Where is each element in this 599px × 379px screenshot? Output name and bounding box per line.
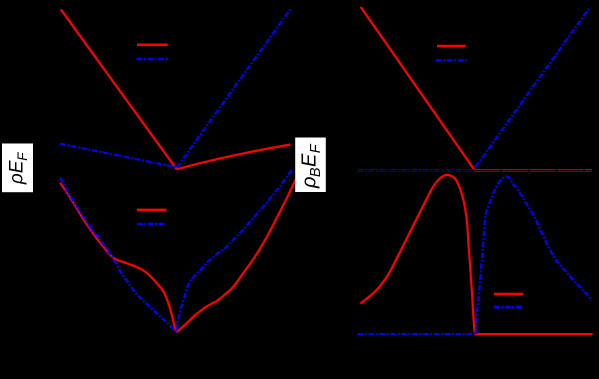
blue zero line bottom-right [358,333,475,335]
red curve bottom-left panel [60,179,296,332]
blue bell curve bottom-right panel [476,176,592,334]
svg-text:ρE: ρE [6,160,27,185]
legend bottom-right blue sample line [494,306,522,309]
ylabel text rho_B E_F [298,143,324,189]
svg-text:ρ: ρ [298,177,320,189]
blue curve top-right steep branch [476,8,590,167]
red zero line bottom-right [475,333,593,335]
legend top-right blue sample line [436,59,467,62]
red zero line top-right [474,169,592,172]
legend top-left red sample line [137,43,168,46]
red curve top-left steep branch [61,9,177,169]
ylabel box right column [295,138,326,193]
ylabel box left column [2,144,33,193]
red curve top-right steep branch [361,7,474,169]
red bell curve bottom-right panel [360,175,475,334]
legend bottom-left blue sample line [137,223,166,226]
legend bottom-left red sample line [137,209,166,212]
legend top-right red sample line [437,45,465,48]
red curve top-left shallow branch [177,145,291,170]
blue curve top-left steep branch [177,10,290,168]
black axis spine over zero lines [358,169,593,171]
ylabel text rho E_F [6,152,30,185]
svg-text:F: F [308,143,324,153]
blue curve bottom-left panel [60,169,292,332]
svg-text:E: E [298,153,320,167]
blue zero line top-right [358,169,475,172]
blue curve top-left shallow branch [60,144,177,168]
svg-text:F: F [15,152,30,161]
legend bottom-right red sample line [494,293,523,296]
svg-text:B: B [308,167,324,177]
legend top-left blue sample line [137,58,169,61]
